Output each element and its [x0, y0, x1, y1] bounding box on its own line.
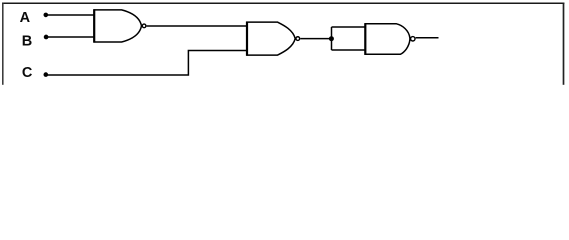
wire A to gate U1 input 1: [46, 14, 94, 16]
input terminal dot C: [44, 72, 49, 77]
output wire: [416, 37, 439, 39]
NAND gate U2 body: [247, 22, 295, 55]
frame (decorative): [2, 3, 564, 85]
wire junction to gate U3 input 2: [332, 49, 366, 51]
NAND gate U3 left edge (thicker): [364, 23, 366, 55]
wire junction riser: [331, 27, 333, 50]
NAND gate U1 body: [94, 10, 141, 42]
svg-text:A: A: [20, 10, 31, 26]
input terminal dot B: [44, 35, 49, 40]
NAND gate U2 left edge (thicker): [246, 22, 248, 56]
wire B to gate U1 input 2: [46, 36, 94, 38]
svg-text:C: C: [22, 65, 33, 81]
input terminal dot A: [44, 13, 49, 18]
NAND gate U1 output bubble: [142, 24, 146, 28]
NAND gate U3 output bubble: [411, 37, 415, 41]
wire U2 output to junction: [300, 38, 331, 40]
wire junction to gate U3 input 1: [332, 26, 366, 28]
svg-text:B: B: [22, 33, 32, 49]
NAND gate U3 body (inverter-wired): [365, 24, 410, 55]
wire U1 output to gate U2 input 1: [147, 25, 247, 27]
NAND gate U2 output bubble: [296, 37, 300, 41]
junction dot: [329, 36, 334, 41]
wire C to gate U2 input 2 (horizontal, riser, horizontal): [46, 51, 247, 76]
NAND gate U1 left edge (thicker): [93, 9, 95, 42]
